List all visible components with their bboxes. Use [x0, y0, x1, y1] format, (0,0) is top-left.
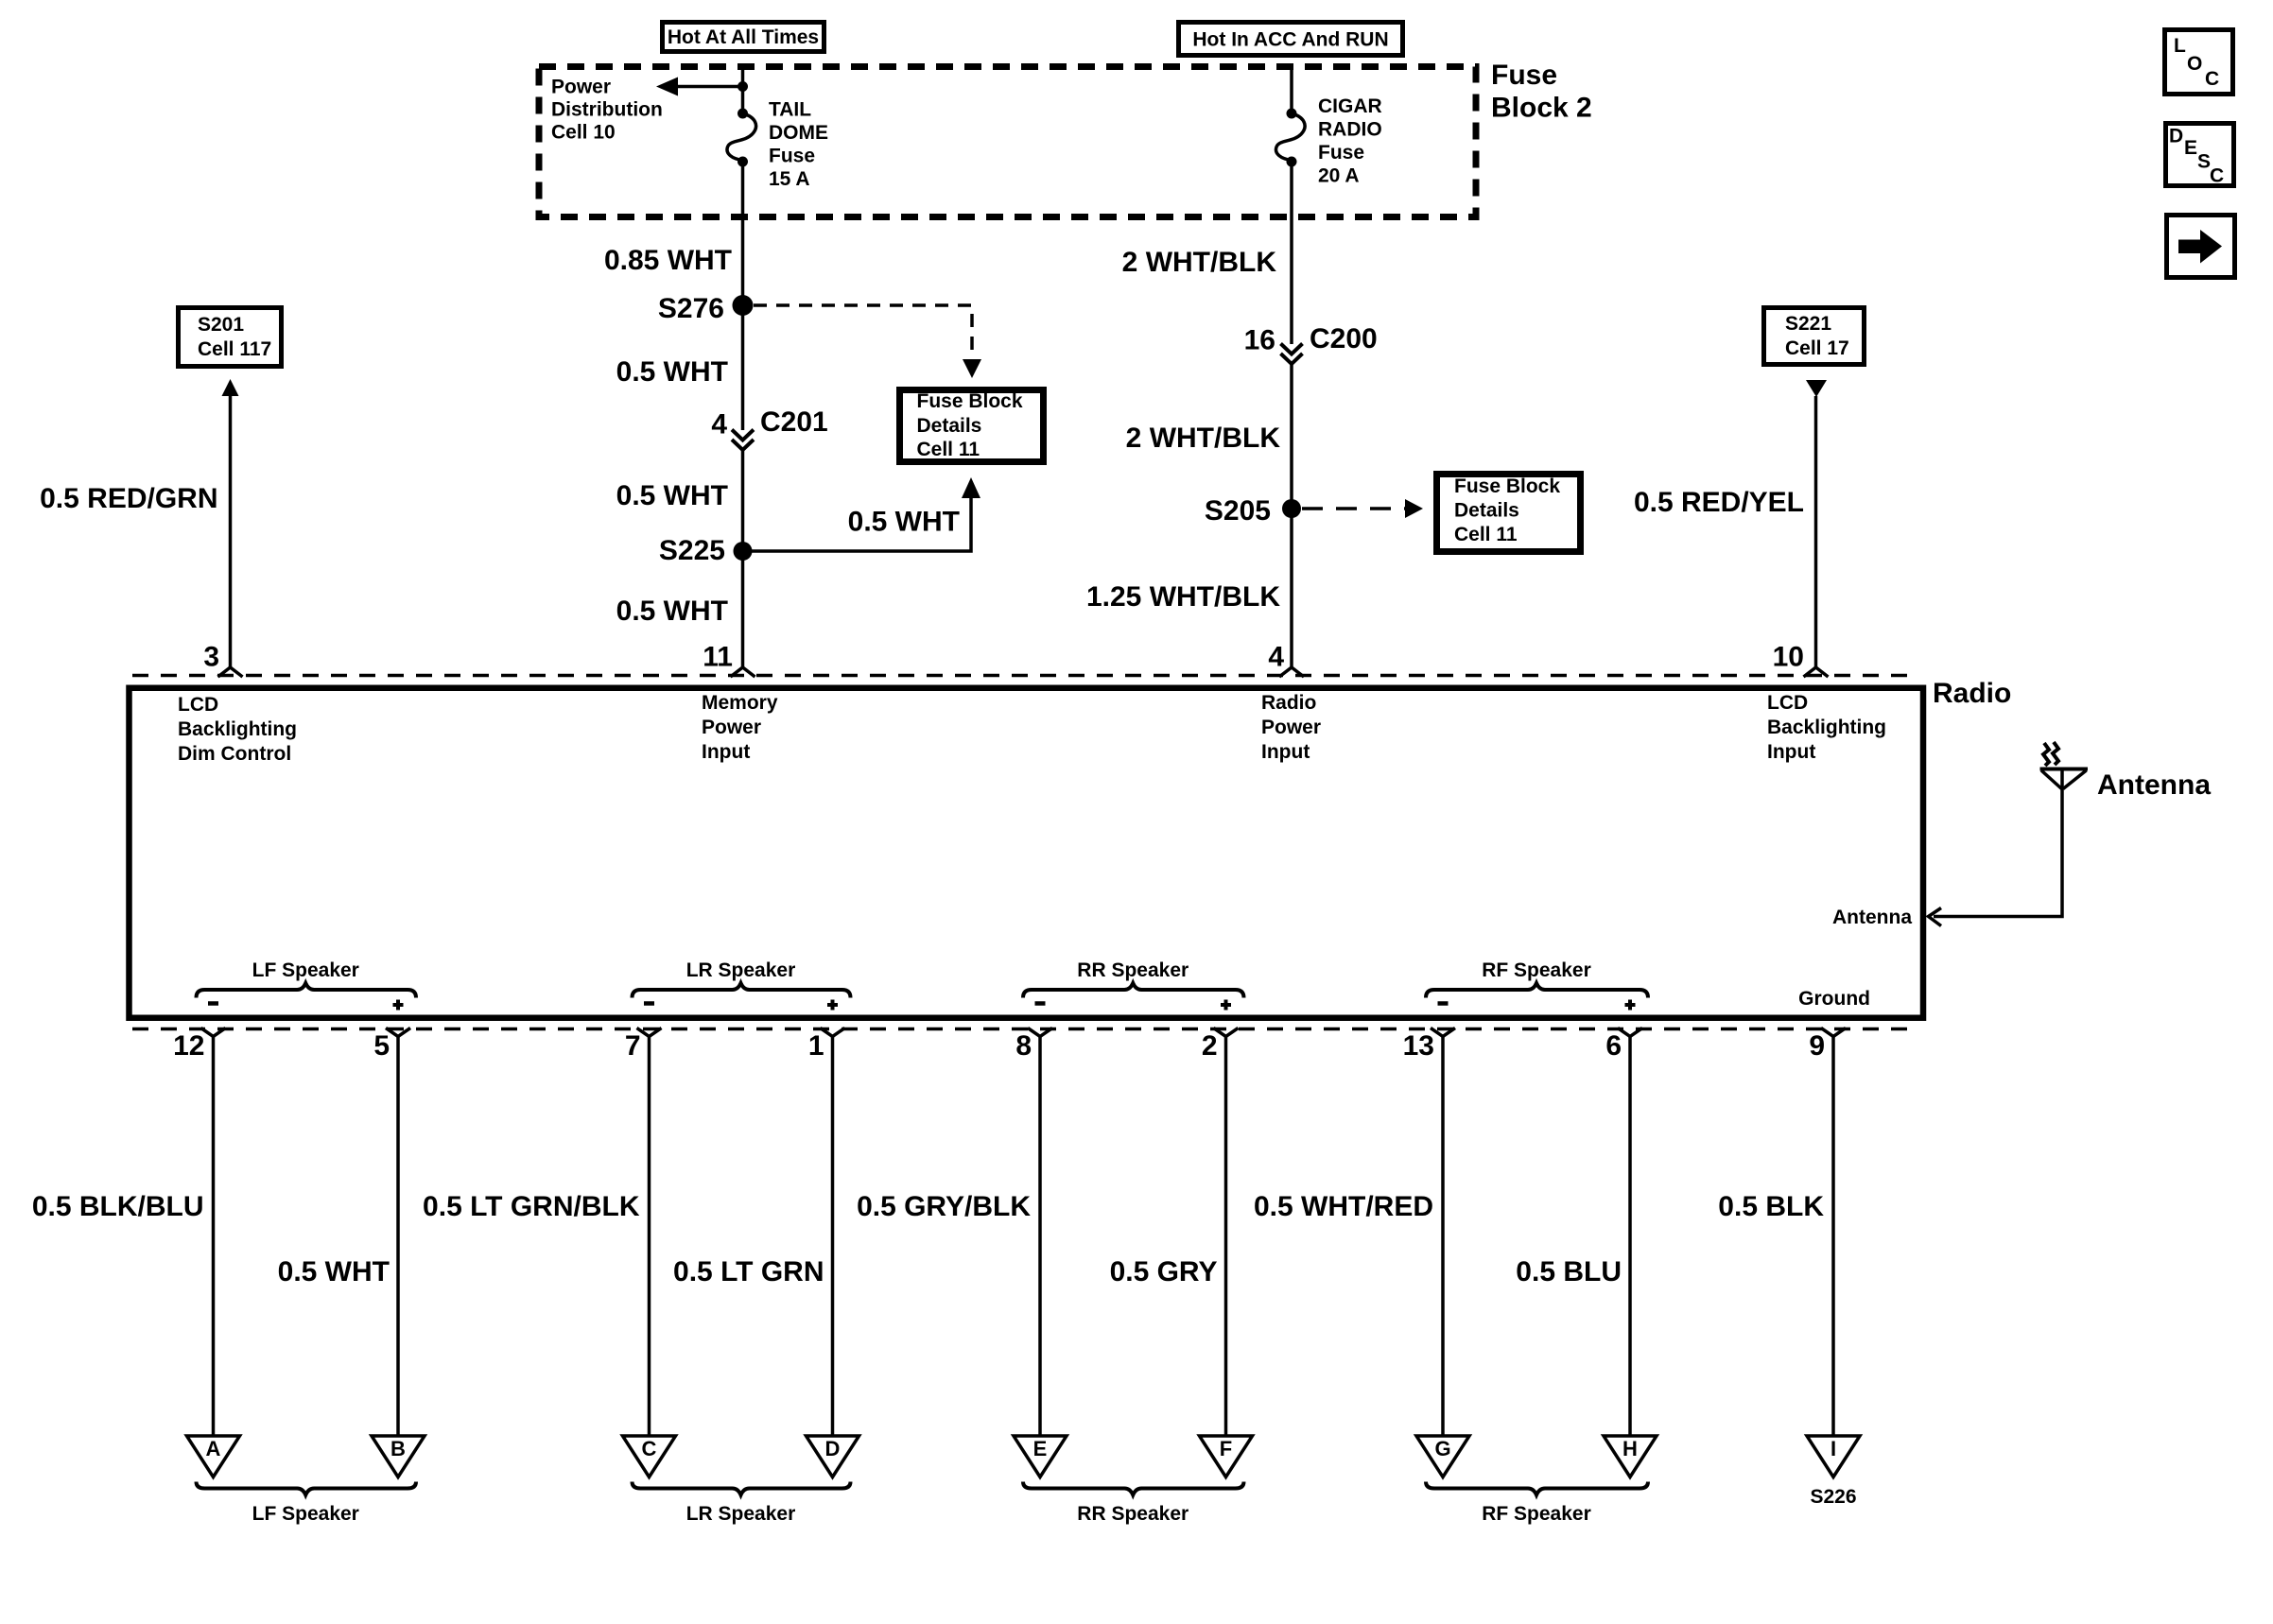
- LR speaker minus terminal: [644, 1001, 654, 1006]
- connector chevron at radio pin 12 bottom: [201, 1028, 226, 1037]
- svg-text:S276: S276: [658, 293, 724, 324]
- svg-text:Radio: Radio: [1261, 692, 1316, 714]
- svg-text:Antenna: Antenna: [2097, 769, 2211, 801]
- connector chevron at radio pin 1 bottom: [821, 1028, 845, 1037]
- terminal F triangle: [1200, 1436, 1253, 1477]
- TAIL DOME Fuse 15 A label: [769, 99, 828, 191]
- svg-text:Radio: Radio: [1933, 678, 2011, 709]
- svg-text:B: B: [390, 1437, 406, 1460]
- svg-text:Fuse Block: Fuse Block: [917, 390, 1023, 412]
- terminal C triangle: [623, 1436, 676, 1477]
- svg-text:Cell 11: Cell 11: [1454, 524, 1518, 545]
- svg-text:RR Speaker: RR Speaker: [1077, 1503, 1189, 1525]
- Fuse Block Details Cell 11 box (right): [1437, 475, 1581, 552]
- svg-text:0.5 WHT: 0.5 WHT: [616, 596, 728, 627]
- S201 Cell 117 box: [179, 308, 282, 367]
- svg-text:2 WHT/BLK: 2 WHT/BLK: [1122, 247, 1277, 278]
- svg-text:LCD: LCD: [1767, 692, 1808, 714]
- svg-text:C: C: [2210, 165, 2224, 187]
- svg-text:0.5 BLU: 0.5 BLU: [1516, 1256, 1622, 1287]
- svg-text:Input: Input: [1261, 741, 1310, 763]
- svg-text:1.25 WHT/BLK: 1.25 WHT/BLK: [1086, 581, 1280, 613]
- pin 3 function label LCD Backlighting Dim Control: [178, 694, 297, 765]
- svg-text:Fuse Block: Fuse Block: [1454, 475, 1560, 497]
- Fuse Block 2 label: [1491, 60, 1592, 124]
- svg-text:Details: Details: [1454, 500, 1519, 522]
- svg-text:A: A: [206, 1437, 221, 1460]
- svg-text:0.5 WHT/RED: 0.5 WHT/RED: [1254, 1191, 1433, 1222]
- svg-text:LF Speaker: LF Speaker: [252, 959, 359, 981]
- svg-text:Hot In ACC And RUN: Hot In ACC And RUN: [1192, 29, 1388, 51]
- RR Speaker output brace: [1023, 959, 1244, 998]
- svg-text:16: 16: [1244, 325, 1275, 356]
- splice S225: [734, 542, 753, 561]
- svg-text:Backlighting: Backlighting: [1767, 717, 1886, 738]
- arrow to Power Distribution Cell 10: [656, 78, 743, 96]
- connector C200 chevrons: [1281, 344, 1303, 365]
- power source label box "Hot In ACC And RUN": [1179, 23, 1403, 56]
- svg-text:S201: S201: [198, 314, 244, 336]
- connector chevron at radio pin 7 bottom: [637, 1028, 662, 1037]
- svg-text:20 A: 20 A: [1318, 165, 1360, 187]
- svg-text:8: 8: [1015, 1030, 1032, 1062]
- svg-text:RF Speaker: RF Speaker: [1482, 1503, 1591, 1525]
- connector chevron at radio pin 6 bottom: [1618, 1028, 1642, 1037]
- svg-text:5: 5: [373, 1030, 390, 1062]
- svg-text:0.5 RED/YEL: 0.5 RED/YEL: [1634, 487, 1804, 518]
- terminal A triangle: [187, 1436, 240, 1477]
- LF speaker plus terminal: [393, 1003, 404, 1007]
- svg-text:0.5 GRY/BLK: 0.5 GRY/BLK: [857, 1191, 1031, 1222]
- svg-text:Input: Input: [1767, 741, 1815, 763]
- wire pin 12 to terminal A: [212, 1036, 216, 1436]
- svg-text:10: 10: [1773, 642, 1804, 673]
- RF speaker plus terminal: [1625, 1003, 1636, 1007]
- svg-text:C200: C200: [1310, 323, 1378, 354]
- wire pin 8 to terminal E: [1038, 1036, 1042, 1436]
- connector chevron at radio pin 3: [218, 667, 243, 677]
- RR Speaker bottom brace: [1023, 1482, 1244, 1526]
- svg-text:Block 2: Block 2: [1491, 93, 1592, 124]
- connector chevron at radio pin 4: [1279, 667, 1304, 677]
- svg-text:6: 6: [1605, 1030, 1622, 1062]
- pin 10 function label LCD Backlighting Input: [1767, 692, 1886, 763]
- svg-text:0.5 WHT: 0.5 WHT: [278, 1256, 390, 1287]
- Power Distribution Cell 10 label: [551, 77, 663, 144]
- svg-text:Cell 17: Cell 17: [1785, 337, 1849, 359]
- wire pin 1 to terminal D: [831, 1036, 835, 1436]
- LR Speaker bottom brace: [633, 1482, 851, 1526]
- wire pin 5 to terminal B: [396, 1036, 400, 1436]
- svg-text:S225: S225: [659, 535, 725, 566]
- svg-text:Ground: Ground: [1798, 988, 1870, 1010]
- svg-text:Dim Control: Dim Control: [178, 743, 291, 765]
- terminal B triangle: [372, 1436, 425, 1477]
- svg-text:S221: S221: [1785, 313, 1831, 335]
- terminal D triangle: [807, 1436, 859, 1477]
- connector chevron at radio pin 5 bottom: [386, 1028, 410, 1037]
- radio connector dashed line bottom: [132, 1028, 1919, 1031]
- svg-text:G: G: [1434, 1437, 1450, 1460]
- antenna lead wire into radio: [1934, 788, 2062, 917]
- terminal H triangle: [1604, 1436, 1657, 1477]
- svg-text:S226: S226: [1810, 1486, 1856, 1508]
- svg-text:0.85 WHT: 0.85 WHT: [604, 245, 732, 276]
- svg-text:7: 7: [625, 1030, 641, 1062]
- svg-text:0.5 BLK/BLU: 0.5 BLK/BLU: [32, 1191, 204, 1222]
- connector chevron at radio pin 10: [1804, 667, 1829, 677]
- connector chevron at radio pin 11: [731, 667, 755, 677]
- svg-text:C: C: [2205, 68, 2219, 90]
- open arrowhead into radio antenna input: [1929, 908, 1942, 926]
- svg-text:Power: Power: [551, 77, 611, 98]
- wire pin 13 to terminal G: [1441, 1036, 1445, 1436]
- RR speaker plus terminal: [1221, 1003, 1231, 1007]
- svg-text:Power: Power: [702, 717, 761, 738]
- splice S276: [733, 295, 754, 316]
- svg-text:D: D: [825, 1437, 841, 1460]
- svg-text:I: I: [1831, 1437, 1836, 1460]
- wire from fuse block top to TAIL DOME fuse: [741, 66, 745, 113]
- svg-text:RF Speaker: RF Speaker: [1482, 959, 1591, 981]
- terminal G triangle: [1416, 1436, 1469, 1477]
- svg-text:S: S: [2197, 151, 2211, 173]
- pin 11 function label Memory Power Input: [702, 692, 778, 763]
- power source label box "Hot At All Times": [663, 23, 824, 52]
- svg-text:11: 11: [703, 642, 733, 673]
- LF Speaker output brace: [197, 959, 417, 998]
- svg-text:S205: S205: [1205, 495, 1271, 527]
- terminal E triangle: [1014, 1436, 1067, 1477]
- svg-text:12: 12: [173, 1030, 204, 1062]
- svg-text:Fuse: Fuse: [1491, 60, 1557, 91]
- svg-text:0.5 GRY: 0.5 GRY: [1110, 1256, 1218, 1287]
- svg-text:LF Speaker: LF Speaker: [252, 1503, 359, 1525]
- junction dot to power distribution: [737, 81, 748, 92]
- RR speaker minus terminal: [1035, 1001, 1046, 1006]
- svg-text:Hot At All Times: Hot At All Times: [668, 26, 819, 48]
- svg-text:0.5 LT GRN: 0.5 LT GRN: [673, 1256, 824, 1287]
- antenna RF wave marks: [2043, 742, 2058, 766]
- svg-text:LCD: LCD: [178, 694, 218, 716]
- Fuse Block Details Cell 11 box (left): [900, 390, 1044, 462]
- svg-text:LR Speaker: LR Speaker: [686, 959, 796, 981]
- connector C201 chevrons: [732, 430, 754, 451]
- svg-text:9: 9: [1809, 1030, 1825, 1062]
- svg-text:RR Speaker: RR Speaker: [1077, 959, 1189, 981]
- svg-text:3: 3: [203, 642, 219, 673]
- connector chevron at radio pin 8 bottom: [1028, 1028, 1052, 1037]
- fuse block 2 dashed boundary: [539, 67, 1476, 217]
- svg-text:C: C: [642, 1437, 657, 1460]
- svg-text:4: 4: [711, 409, 727, 441]
- LF speaker minus terminal: [208, 1001, 218, 1006]
- CIGAR RADIO Fuse 20 A label: [1318, 95, 1382, 187]
- wire C201 to splice S225: [741, 450, 745, 551]
- svg-text:2: 2: [1202, 1030, 1218, 1062]
- terminal I triangle: [1807, 1436, 1860, 1477]
- connector chevron at radio pin 2 bottom: [1214, 1028, 1239, 1037]
- svg-text:Cell 117: Cell 117: [198, 338, 271, 360]
- radio component box: [130, 688, 1924, 1018]
- svg-text:2 WHT/BLK: 2 WHT/BLK: [1126, 423, 1281, 454]
- wire S225 to radio pin 11: [741, 551, 745, 668]
- svg-text:0.5 WHT: 0.5 WHT: [616, 480, 728, 511]
- wire S276 to connector C201: [741, 305, 745, 430]
- radio connector dashed line top: [132, 674, 1919, 678]
- wire pin 6 to terminal H: [1628, 1036, 1632, 1436]
- svg-text:0.5 LT GRN/BLK: 0.5 LT GRN/BLK: [423, 1191, 640, 1222]
- svg-text:C201: C201: [760, 406, 828, 438]
- S221 Cell 17 box: [1764, 308, 1865, 365]
- wire fuse to splice S276: [741, 162, 745, 305]
- dashed reference arrow S205 to fuse block details: [1302, 499, 1423, 518]
- fuse TAIL DOME 15 A: [727, 109, 756, 167]
- DESC icon box: [2166, 124, 2234, 187]
- wire from fuse block top to CIGAR RADIO fuse: [1290, 66, 1293, 113]
- fuse CIGAR RADIO 20 A: [1275, 109, 1305, 167]
- 0.5 WHT branch wire S225 to fuse block details with arrow: [752, 477, 980, 551]
- splice S205: [1282, 499, 1301, 518]
- svg-text:E: E: [2184, 137, 2197, 159]
- pin 4 function label Radio Power Input: [1261, 692, 1321, 763]
- arrow down from S221: [1806, 380, 1827, 397]
- wire pin 2 to terminal F: [1224, 1036, 1228, 1436]
- LR Speaker output brace: [633, 959, 851, 998]
- svg-text:D: D: [2169, 126, 2183, 147]
- wire pin 9 to terminal I: [1831, 1036, 1835, 1436]
- svg-text:DOME: DOME: [769, 122, 828, 144]
- RF speaker minus terminal: [1438, 1001, 1449, 1006]
- wire C200 to radio pin 4: [1290, 364, 1293, 668]
- svg-text:Distribution: Distribution: [551, 99, 663, 121]
- LOC icon box: [2165, 30, 2233, 95]
- LF Speaker bottom brace: [197, 1482, 417, 1526]
- svg-text:0.5 WHT: 0.5 WHT: [848, 507, 960, 538]
- svg-text:Backlighting: Backlighting: [178, 718, 297, 740]
- svg-text:LR Speaker: LR Speaker: [686, 1503, 796, 1525]
- svg-text:Fuse: Fuse: [1318, 142, 1364, 164]
- svg-text:1: 1: [808, 1030, 824, 1062]
- svg-text:Antenna: Antenna: [1832, 907, 1912, 928]
- svg-text:Details: Details: [917, 415, 982, 437]
- svg-text:4: 4: [1268, 642, 1284, 673]
- wire pin 7 to terminal C: [648, 1036, 651, 1436]
- svg-text:Cell 10: Cell 10: [551, 122, 616, 144]
- svg-text:0.5 RED/GRN: 0.5 RED/GRN: [40, 483, 217, 514]
- svg-text:H: H: [1622, 1437, 1638, 1460]
- dashed reference arrow S276 to fuse block details: [754, 305, 981, 378]
- svg-text:15 A: 15 A: [769, 168, 810, 190]
- wire radio pin 3 to S201: [229, 395, 233, 668]
- forward arrow icon box: [2167, 216, 2235, 278]
- arrow up to S201: [222, 379, 239, 396]
- connector chevron at radio pin 13 bottom: [1431, 1028, 1455, 1037]
- svg-text:Cell 11: Cell 11: [917, 439, 980, 460]
- wire S221 to radio pin 10: [1814, 396, 1818, 668]
- svg-text:L: L: [2174, 35, 2186, 57]
- svg-text:0.5 WHT: 0.5 WHT: [616, 356, 728, 388]
- svg-text:Power: Power: [1261, 717, 1321, 738]
- svg-text:Input: Input: [702, 741, 750, 763]
- svg-text:O: O: [2187, 53, 2202, 75]
- svg-text:RADIO: RADIO: [1318, 119, 1382, 141]
- svg-text:TAIL: TAIL: [769, 99, 811, 121]
- svg-text:0.5 BLK: 0.5 BLK: [1718, 1191, 1824, 1222]
- wire fuse to connector C200: [1290, 162, 1293, 344]
- antenna symbol: [2040, 769, 2089, 790]
- RF Speaker output brace: [1426, 959, 1648, 998]
- RF Speaker bottom brace: [1426, 1482, 1648, 1526]
- svg-text:Fuse: Fuse: [769, 146, 815, 167]
- connector chevron at radio pin 9 bottom: [1821, 1028, 1846, 1037]
- svg-text:Memory: Memory: [702, 692, 778, 714]
- svg-text:F: F: [1220, 1437, 1232, 1460]
- LR speaker plus terminal: [827, 1003, 838, 1007]
- svg-text:CIGAR: CIGAR: [1318, 95, 1382, 117]
- svg-text:E: E: [1033, 1437, 1048, 1460]
- svg-text:13: 13: [1403, 1030, 1434, 1062]
